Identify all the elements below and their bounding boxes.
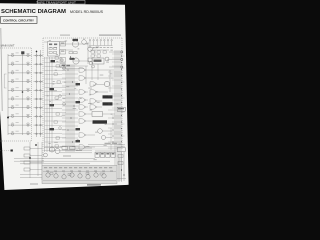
svg-text:CONTROL CIRCUITRY: CONTROL CIRCUITRY [3, 19, 34, 23]
svg-text:TAPE TRANSPORT UNIT: TAPE TRANSPORT UNIT [36, 0, 76, 4]
svg-text:SCHEMATIC DIAGRAM: SCHEMATIC DIAGRAM [1, 9, 66, 15]
svg-text:MODEL RD-9600US: MODEL RD-9600US [70, 10, 104, 14]
svg-text:MAIN UNIT: MAIN UNIT [1, 45, 16, 48]
